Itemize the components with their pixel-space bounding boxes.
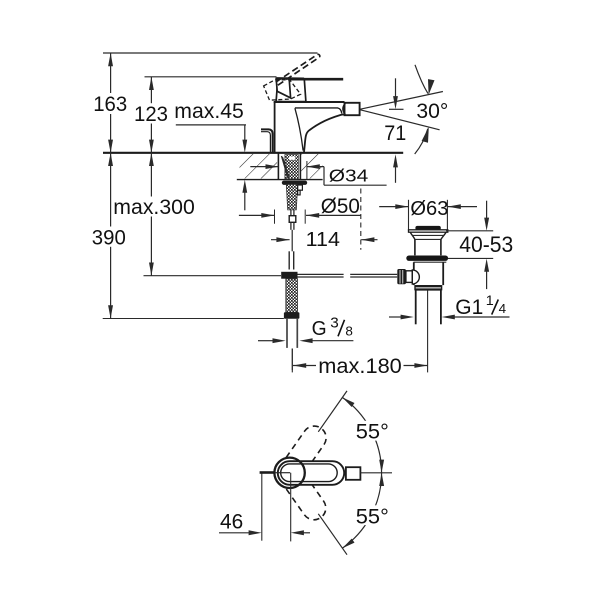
svg-text:max.45: max.45 xyxy=(174,99,244,123)
svg-text:G1: G1 xyxy=(455,296,483,319)
svg-text:46: 46 xyxy=(220,510,243,534)
svg-text:55°: 55° xyxy=(356,420,389,444)
svg-text:G: G xyxy=(312,317,327,340)
svg-text:Ø34: Ø34 xyxy=(329,165,369,185)
svg-text:max.300: max.300 xyxy=(113,195,195,219)
svg-text:123: 123 xyxy=(134,102,168,126)
svg-text:3: 3 xyxy=(330,314,339,331)
svg-text:1: 1 xyxy=(486,292,494,308)
svg-text:71: 71 xyxy=(384,122,406,145)
svg-text:163: 163 xyxy=(93,92,127,116)
svg-text:114: 114 xyxy=(306,228,340,251)
svg-text:30°: 30° xyxy=(416,100,448,123)
svg-text:Ø50: Ø50 xyxy=(321,195,360,218)
svg-text:8: 8 xyxy=(345,323,353,338)
svg-text:55°: 55° xyxy=(356,504,389,528)
svg-text:40-53: 40-53 xyxy=(459,232,513,257)
svg-text:390: 390 xyxy=(92,225,126,249)
svg-text:max.180: max.180 xyxy=(318,354,402,378)
svg-text:Ø63: Ø63 xyxy=(410,198,448,220)
svg-text:4: 4 xyxy=(499,301,507,316)
